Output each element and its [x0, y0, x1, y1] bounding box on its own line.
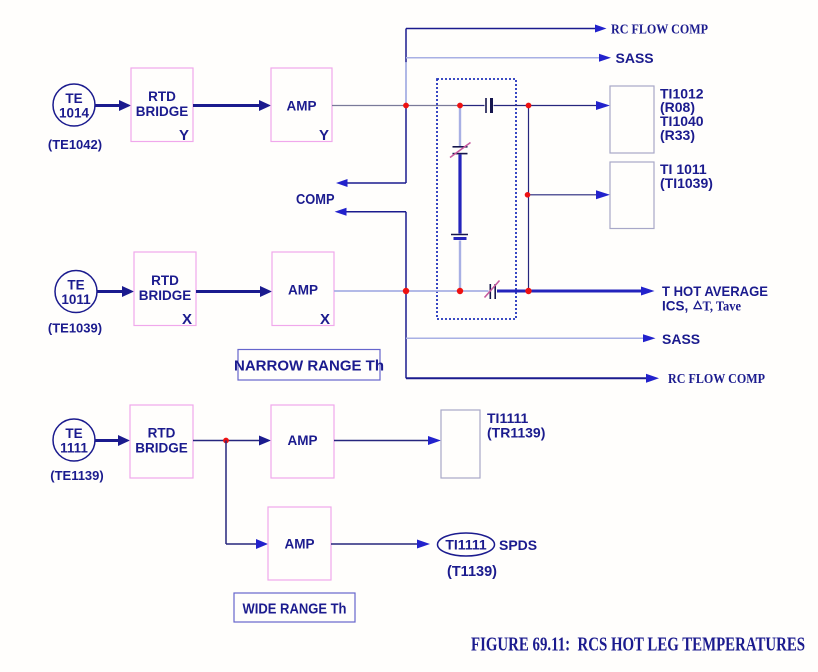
svg-text:(T1139): (T1139) — [447, 564, 497, 580]
svg-text:T HOT AVERAGE: T HOT AVERAGE — [662, 283, 768, 299]
svg-text:RTD: RTD — [151, 273, 179, 288]
svg-text:Y: Y — [179, 127, 189, 144]
svg-text:RTD: RTD — [148, 89, 176, 104]
svg-text:(TE1042): (TE1042) — [48, 137, 102, 152]
svg-text:(TE1039): (TE1039) — [48, 321, 102, 336]
svg-text:(TE1139): (TE1139) — [50, 468, 103, 483]
svg-text:T, Tave: T, Tave — [703, 299, 742, 314]
svg-text:RC FLOW COMP: RC FLOW COMP — [668, 372, 765, 387]
svg-text:TE: TE — [67, 278, 84, 293]
svg-text:FIGURE 69.11: RCS HOT LEG TEM: FIGURE 69.11: RCS HOT LEG TEMPERATURES — [471, 634, 805, 656]
svg-text:ICS,: ICS, — [662, 299, 688, 314]
svg-text:SASS: SASS — [662, 331, 700, 347]
svg-text:NARROW RANGE Th: NARROW RANGE Th — [234, 358, 384, 375]
svg-text:BRIDGE: BRIDGE — [136, 104, 189, 119]
svg-text:SPDS: SPDS — [499, 537, 537, 553]
svg-text:RC FLOW COMP: RC FLOW COMP — [611, 23, 708, 38]
svg-text:(TR1139): (TR1139) — [487, 425, 545, 441]
svg-text:(TI1039): (TI1039) — [660, 175, 713, 191]
svg-text:AMP: AMP — [287, 99, 317, 114]
svg-text:Y: Y — [319, 127, 329, 144]
svg-text:TE: TE — [65, 426, 82, 441]
svg-text:SASS: SASS — [616, 50, 654, 66]
svg-text:AMP: AMP — [288, 283, 318, 298]
svg-text:1011: 1011 — [61, 292, 91, 307]
svg-text:1014: 1014 — [59, 106, 90, 121]
svg-text:RTD: RTD — [148, 426, 176, 441]
svg-text:(R33): (R33) — [660, 127, 695, 143]
svg-text:1111: 1111 — [60, 441, 88, 456]
svg-text:AMP: AMP — [285, 537, 315, 552]
svg-text:X: X — [182, 311, 192, 328]
svg-text:TE: TE — [65, 91, 82, 106]
svg-text:BRIDGE: BRIDGE — [135, 441, 188, 456]
svg-text:COMP: COMP — [296, 192, 335, 208]
svg-text:WIDE RANGE Th: WIDE RANGE Th — [243, 601, 347, 618]
svg-text:TI1111: TI1111 — [445, 537, 486, 553]
svg-text:BRIDGE: BRIDGE — [139, 288, 192, 303]
svg-text:X: X — [320, 311, 330, 328]
svg-text:AMP: AMP — [288, 433, 318, 448]
